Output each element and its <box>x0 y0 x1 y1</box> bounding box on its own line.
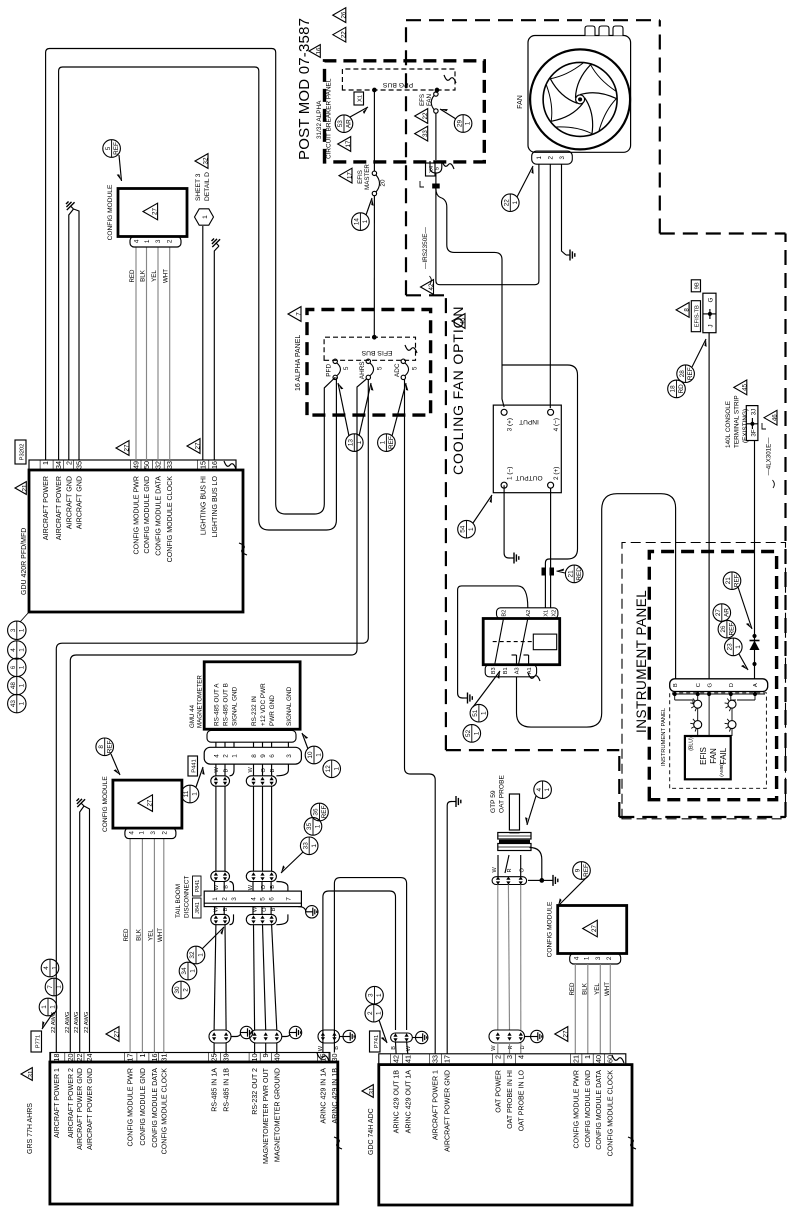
svg-text:3: 3 <box>595 956 602 960</box>
svg-text:4: 4 <box>43 966 50 970</box>
svg-text:G: G <box>707 682 713 687</box>
svg-text:1: 1 <box>316 753 323 757</box>
svg-text:1: 1 <box>544 787 551 791</box>
svg-text:AIRCRAFT POWER GND: AIRCRAFT POWER GND <box>444 1070 452 1152</box>
svg-text:2: 2 <box>222 897 229 901</box>
svg-text:INPUT: INPUT <box>519 418 539 425</box>
svg-text:J841: J841 <box>195 902 201 914</box>
svg-text:1: 1 <box>380 440 387 444</box>
svg-text:LIGHTING BUS HI: LIGHTING BUS HI <box>199 476 207 535</box>
svg-text:5: 5 <box>411 366 418 370</box>
svg-text:9: 9 <box>261 1054 270 1058</box>
svg-text:CONFIG MODULE CLOCK: CONFIG MODULE CLOCK <box>606 1070 614 1157</box>
svg-text:15: 15 <box>318 1054 327 1062</box>
svg-text:1: 1 <box>18 628 25 632</box>
svg-text:RS-232 OUT 2: RS-232 OUT 2 <box>251 1068 259 1115</box>
svg-text:31: 31 <box>369 1087 376 1094</box>
svg-text:OAT PROBE IN LO: OAT PROBE IN LO <box>517 1070 525 1132</box>
svg-text:22: 22 <box>340 31 347 38</box>
svg-text:RS-485 OUT B: RS-485 OUT B <box>222 683 229 726</box>
svg-text:15: 15 <box>198 461 207 469</box>
svg-text:36: 36 <box>313 808 320 816</box>
svg-text:1: 1 <box>333 767 340 771</box>
svg-text:11: 11 <box>183 790 190 797</box>
svg-text:B: B <box>223 907 229 911</box>
svg-text:OUTPUT: OUTPUT <box>515 474 542 481</box>
svg-text:B1: B1 <box>503 667 509 674</box>
svg-text:13: 13 <box>348 439 355 447</box>
svg-text:O: O <box>262 907 268 912</box>
svg-text:2 (+): 2 (+) <box>553 467 560 480</box>
svg-text:W: W <box>318 1045 324 1051</box>
svg-text:22: 22 <box>504 199 511 207</box>
svg-text:140L CONSOLE: 140L CONSOLE <box>725 401 732 448</box>
svg-text:33: 33 <box>302 842 309 850</box>
svg-text:27: 27 <box>715 609 722 617</box>
svg-text:51: 51 <box>472 709 479 717</box>
svg-text:2: 2 <box>161 831 168 835</box>
svg-text:2: 2 <box>367 1011 374 1015</box>
svg-text:43: 43 <box>10 700 17 708</box>
svg-text:REF: REF <box>687 367 694 380</box>
svg-text:27: 27 <box>591 925 598 932</box>
svg-text:1: 1 <box>138 1054 147 1058</box>
svg-text:O: O <box>520 868 526 873</box>
svg-text:30: 30 <box>174 986 181 994</box>
svg-text:SIGNAL GND: SIGNAL GND <box>286 686 293 726</box>
svg-text:P3202: P3202 <box>20 444 26 461</box>
svg-text:1: 1 <box>192 792 199 796</box>
svg-text:31: 31 <box>159 1054 168 1062</box>
svg-text:REF: REF <box>734 574 741 587</box>
svg-text:C: C <box>696 683 702 687</box>
svg-text:1: 1 <box>481 711 488 715</box>
svg-text:1: 1 <box>41 461 50 465</box>
svg-text:4: 4 <box>213 754 220 758</box>
svg-text:DETAIL D: DETAIL D <box>204 172 211 201</box>
svg-text:3: 3 <box>368 993 375 997</box>
svg-text:42: 42 <box>428 283 435 290</box>
svg-text:FAN: FAN <box>426 94 433 106</box>
svg-text:RS-485 OUT A: RS-485 OUT A <box>213 683 220 726</box>
svg-text:AIRCRAFT POWER GND: AIRCRAFT POWER GND <box>86 1068 94 1150</box>
svg-text:35: 35 <box>306 822 313 830</box>
svg-text:A2: A2 <box>526 610 532 617</box>
svg-text:WHT: WHT <box>157 928 164 942</box>
svg-text:1: 1 <box>18 648 25 652</box>
svg-text:34: 34 <box>181 967 188 975</box>
svg-text:4: 4 <box>516 1055 525 1059</box>
svg-text:AIRCRAFT POWER: AIRCRAFT POWER <box>55 476 63 540</box>
svg-text:7: 7 <box>285 897 292 901</box>
svg-text:CONFIG MODULE GND: CONFIG MODULE GND <box>584 1070 592 1148</box>
svg-text:7: 7 <box>296 312 303 316</box>
svg-text:33: 33 <box>165 461 174 469</box>
svg-text:1: 1 <box>198 953 205 957</box>
svg-text:60: 60 <box>605 1055 614 1063</box>
svg-text:1: 1 <box>512 200 519 204</box>
svg-text:8: 8 <box>251 754 258 758</box>
svg-text:(AMB): (AMB) <box>719 763 725 777</box>
svg-text:3: 3 <box>505 1055 514 1059</box>
svg-text:1: 1 <box>231 754 238 758</box>
svg-text:CONFIG MODULE PWR: CONFIG MODULE PWR <box>133 476 141 554</box>
svg-text:RS-485 IN 1A: RS-485 IN 1A <box>211 1068 219 1112</box>
svg-text:1: 1 <box>52 966 59 970</box>
svg-text:28: 28 <box>679 370 686 378</box>
svg-text:INSTRUMENT PANEL: INSTRUMENT PANEL <box>634 590 649 733</box>
svg-text:3: 3 <box>559 156 566 160</box>
svg-text:31: 31 <box>28 1070 35 1077</box>
svg-text:9: 9 <box>260 754 267 758</box>
svg-text:AIRCRAFT GND: AIRCRAFT GND <box>65 476 73 529</box>
svg-text:1: 1 <box>202 215 209 219</box>
svg-text:BLK: BLK <box>140 269 147 282</box>
svg-text:GDC 74H ADC: GDC 74H ADC <box>368 1108 375 1155</box>
svg-text:10: 10 <box>307 751 314 759</box>
svg-text:23: 23 <box>727 643 734 651</box>
svg-text:21: 21 <box>567 570 574 578</box>
svg-text:X1: X1 <box>544 610 550 617</box>
svg-text:52: 52 <box>465 729 472 737</box>
svg-text:45: 45 <box>460 317 467 324</box>
svg-text:1: 1 <box>18 683 25 687</box>
svg-text:1: 1 <box>50 1005 57 1009</box>
svg-text:1: 1 <box>362 219 369 223</box>
svg-text:17: 17 <box>126 1054 135 1062</box>
svg-text:1: 1 <box>311 844 318 848</box>
svg-text:41: 41 <box>403 1055 412 1063</box>
svg-text:B3: B3 <box>491 667 497 674</box>
svg-text:20: 20 <box>66 1054 75 1062</box>
svg-text:48: 48 <box>10 682 17 690</box>
svg-text:RED: RED <box>129 269 136 283</box>
svg-text:1: 1 <box>536 156 543 160</box>
svg-text:PPG BUS: PPG BUS <box>382 81 413 88</box>
svg-text:27: 27 <box>146 799 153 806</box>
svg-text:18: 18 <box>52 1054 61 1062</box>
svg-text:CONFIG MODULE GND: CONFIG MODULE GND <box>143 476 151 554</box>
svg-text:5: 5 <box>259 897 266 901</box>
svg-text:8: 8 <box>98 745 105 749</box>
svg-text:31/32 ALPHA: 31/32 ALPHA <box>316 100 323 139</box>
svg-text:29: 29 <box>456 120 463 128</box>
svg-text:AR: AR <box>346 119 353 128</box>
svg-text:CONFIG MODULE DATA: CONFIG MODULE DATA <box>155 476 163 556</box>
svg-text:YEL: YEL <box>151 270 158 282</box>
svg-text:EFIS-TB: EFIS-TB <box>695 305 701 327</box>
svg-text:2: 2 <box>493 1055 502 1059</box>
svg-text:ARINC 429 IN 1A: ARINC 429 IN 1A <box>319 1068 327 1124</box>
svg-text:3: 3 <box>231 897 238 901</box>
svg-text:8: 8 <box>684 308 691 312</box>
svg-text:22: 22 <box>422 112 429 119</box>
svg-text:REF: REF <box>729 623 736 636</box>
svg-text:4 (−): 4 (−) <box>553 418 560 431</box>
svg-text:16: 16 <box>316 47 323 54</box>
svg-text:16: 16 <box>150 1054 159 1062</box>
svg-text:AIRCRAFT POWER 1: AIRCRAFT POWER 1 <box>53 1068 61 1138</box>
svg-text:16: 16 <box>210 461 219 469</box>
svg-text:CONFIG MODULE PWR: CONFIG MODULE PWR <box>572 1070 580 1148</box>
svg-text:OAT PROBE IN HI: OAT PROBE IN HI <box>506 1070 514 1129</box>
svg-text:CONFIG MODULE: CONFIG MODULE <box>102 776 109 832</box>
svg-text:26: 26 <box>720 625 727 633</box>
svg-text:27: 27 <box>114 1030 121 1037</box>
svg-text:10: 10 <box>250 1054 259 1062</box>
svg-text:25: 25 <box>210 1054 219 1062</box>
svg-text:RED: RED <box>123 928 130 942</box>
svg-text:22: 22 <box>75 1054 84 1062</box>
svg-text:27: 27 <box>152 208 159 215</box>
svg-text:WHT: WHT <box>163 269 170 283</box>
svg-text:2: 2 <box>64 461 73 465</box>
svg-text:B: B <box>270 769 276 773</box>
svg-text:W: W <box>214 767 220 773</box>
svg-text:W: W <box>252 906 258 912</box>
svg-text:3: 3 <box>286 754 293 758</box>
svg-text:B: B <box>224 769 230 773</box>
svg-text:14: 14 <box>354 218 361 226</box>
svg-text:(BLU): (BLU) <box>689 737 695 751</box>
svg-text:D: D <box>729 683 735 687</box>
svg-text:FAN: FAN <box>709 748 718 764</box>
svg-text:7: 7 <box>47 985 54 989</box>
svg-text:17: 17 <box>443 1055 452 1063</box>
svg-text:COOLING FAN OPTION: COOLING FAN OPTION <box>450 306 466 475</box>
svg-text:40: 40 <box>594 1055 603 1063</box>
svg-text:B2: B2 <box>502 610 508 617</box>
svg-text:CONFIG MODULE DATA: CONFIG MODULE DATA <box>595 1070 603 1150</box>
svg-text:POST MOD 07-3587: POST MOD 07-3587 <box>296 18 313 160</box>
svg-text:P441: P441 <box>192 759 198 773</box>
svg-text:21: 21 <box>725 577 732 585</box>
svg-text:17: 17 <box>347 172 354 179</box>
svg-text:AIRCRAFT POWER GND: AIRCRAFT POWER GND <box>76 1068 84 1150</box>
svg-text:SIGNAL GND: SIGNAL GND <box>231 686 238 726</box>
svg-text:MAGNETOMETER GROUND: MAGNETOMETER GROUND <box>273 1068 281 1162</box>
svg-text:CONFIG MODULE PWR: CONFIG MODULE PWR <box>127 1068 135 1146</box>
svg-text:9B: 9B <box>695 282 701 289</box>
svg-text:49: 49 <box>132 461 141 469</box>
svg-text:42: 42 <box>392 1055 401 1063</box>
svg-text:YEL: YEL <box>147 929 154 941</box>
svg-text:4: 4 <box>573 956 580 960</box>
svg-text:J: J <box>708 324 715 327</box>
svg-text:GMU 44: GMU 44 <box>189 704 196 728</box>
svg-text:B: B <box>673 683 679 687</box>
svg-text:REF: REF <box>321 806 328 819</box>
svg-text:R: R <box>507 868 513 872</box>
svg-text:1: 1 <box>584 956 591 960</box>
svg-text:FAN: FAN <box>517 95 524 109</box>
svg-text:1: 1 <box>144 239 151 243</box>
svg-text:1: 1 <box>468 527 475 531</box>
svg-text:4: 4 <box>250 897 257 901</box>
svg-text:40: 40 <box>272 1054 281 1062</box>
svg-text:CONFIG MODULE CLOCK: CONFIG MODULE CLOCK <box>160 1068 168 1155</box>
svg-text:PFD: PFD <box>326 364 333 377</box>
svg-text:GDU 420R PFD/MFD: GDU 420R PFD/MFD <box>21 528 28 595</box>
svg-text:1: 1 <box>139 831 146 835</box>
svg-text:1: 1 <box>465 121 472 125</box>
svg-text:CONFIG MODULE DATA: CONFIG MODULE DATA <box>151 1068 159 1148</box>
svg-text:ARINC 429 OUT 1B: ARINC 429 OUT 1B <box>393 1070 401 1134</box>
svg-text:26: 26 <box>340 11 347 18</box>
svg-text:4: 4 <box>134 239 141 243</box>
svg-text:12: 12 <box>325 765 332 773</box>
svg-text:1: 1 <box>41 1005 48 1009</box>
svg-text:45: 45 <box>741 383 748 390</box>
svg-text:AIRCRAFT GND: AIRCRAFT GND <box>76 476 84 529</box>
svg-text:EFIS BUS: EFIS BUS <box>361 349 392 356</box>
svg-text:INSTRUMENT PANEL: INSTRUMENT PANEL <box>661 707 667 766</box>
svg-text:6: 6 <box>269 897 276 901</box>
svg-text:34: 34 <box>54 461 63 469</box>
svg-text:16 ALPHA PANEL: 16 ALPHA PANEL <box>295 335 302 391</box>
svg-text:(EXISTING): (EXISTING) <box>742 409 749 443</box>
svg-text:1: 1 <box>735 645 742 649</box>
svg-text:AIRCRAFT POWER: AIRCRAFT POWER <box>42 476 50 540</box>
svg-text:4: 4 <box>536 787 543 791</box>
svg-text:35: 35 <box>75 461 84 469</box>
svg-text:AR: AR <box>723 608 730 617</box>
svg-text:ARINC 429 OUT 1A: ARINC 429 OUT 1A <box>404 1070 412 1134</box>
svg-text:21: 21 <box>22 484 29 491</box>
svg-text:MASTER: MASTER <box>364 164 371 190</box>
svg-text:5: 5 <box>435 167 441 170</box>
svg-text:1 (−): 1 (−) <box>507 467 514 480</box>
svg-text:OAT PROBE: OAT PROBE <box>499 775 506 813</box>
svg-text:B: B <box>334 1046 340 1050</box>
svg-text:30: 30 <box>330 1054 339 1062</box>
svg-text:1: 1 <box>18 701 25 705</box>
svg-text:P741: P741 <box>374 1035 380 1049</box>
svg-text:O: O <box>261 768 267 773</box>
svg-text:AHRS: AHRS <box>359 361 366 379</box>
svg-text:P841: P841 <box>195 880 201 893</box>
svg-text:P771: P771 <box>36 1035 42 1049</box>
svg-text:X2: X2 <box>552 610 558 617</box>
svg-text:9: 9 <box>575 868 582 872</box>
svg-text:RD: RD <box>678 384 685 394</box>
svg-text:2: 2 <box>606 956 613 960</box>
svg-text:W: W <box>214 906 220 912</box>
svg-text:27: 27 <box>562 1030 569 1037</box>
svg-text:TAIL BOOM: TAIL BOOM <box>175 884 182 918</box>
svg-text:TERMINAL STRIP: TERMINAL STRIP <box>734 395 741 448</box>
svg-text:GTP 59: GTP 59 <box>490 790 497 813</box>
svg-text:32: 32 <box>203 157 210 164</box>
svg-text:4: 4 <box>10 648 17 652</box>
svg-text:5: 5 <box>105 146 112 150</box>
svg-text:EFS: EFS <box>419 94 426 106</box>
svg-text:A3: A3 <box>515 667 521 674</box>
svg-text:3 (+): 3 (+) <box>507 418 514 431</box>
svg-text:53: 53 <box>337 120 344 128</box>
svg-text:5: 5 <box>343 366 350 370</box>
svg-text:33: 33 <box>422 130 429 137</box>
svg-text:B: B <box>271 907 277 911</box>
svg-text:33: 33 <box>431 1055 440 1063</box>
svg-text:50: 50 <box>142 461 151 469</box>
svg-text:27: 27 <box>124 444 131 451</box>
svg-text:1: 1 <box>375 1011 382 1015</box>
svg-text:PWR GND: PWR GND <box>269 695 276 726</box>
svg-text:RS-485 IN 1B: RS-485 IN 1B <box>223 1068 231 1112</box>
svg-text:REF: REF <box>388 436 395 449</box>
svg-text:46: 46 <box>772 414 779 421</box>
svg-text:W: W <box>491 1045 497 1051</box>
svg-text:REF: REF <box>113 142 120 155</box>
svg-text:39: 39 <box>222 1054 231 1062</box>
svg-text:DISCONNECT: DISCONNECT <box>184 876 191 918</box>
svg-text:GRS 77H AHRS: GRS 77H AHRS <box>27 1103 34 1154</box>
svg-text:CIRCUIT BREAKER PANEL: CIRCUIT BREAKER PANEL <box>326 78 333 159</box>
svg-text:3: 3 <box>150 831 157 835</box>
svg-text:32: 32 <box>189 951 196 959</box>
svg-text:17: 17 <box>345 140 352 147</box>
svg-text:+12 VDC PWR: +12 VDC PWR <box>260 683 267 726</box>
svg-text:32: 32 <box>154 461 163 469</box>
svg-text:3: 3 <box>10 628 17 632</box>
svg-text:2: 2 <box>183 988 190 992</box>
svg-text:MAGNETOMETER: MAGNETOMETER <box>197 675 204 728</box>
svg-text:—IRS2350E—: —IRS2350E— <box>422 226 429 269</box>
svg-text:3: 3 <box>155 239 162 243</box>
svg-text:24: 24 <box>85 1054 94 1062</box>
svg-text:EFIS: EFIS <box>699 747 708 765</box>
svg-text:CONFIG MODULE CLOCK: CONFIG MODULE CLOCK <box>166 476 174 563</box>
svg-text:1: 1 <box>376 993 383 997</box>
svg-text:1: 1 <box>473 731 480 735</box>
svg-text:RED: RED <box>576 567 583 581</box>
svg-text:REF: REF <box>106 740 113 753</box>
svg-text:CONFIG MODULE: CONFIG MODULE <box>547 901 554 957</box>
svg-text:2: 2 <box>222 754 229 758</box>
svg-text:ADC: ADC <box>394 363 401 377</box>
svg-text:3J: 3J <box>751 409 758 416</box>
svg-text:54: 54 <box>460 525 467 533</box>
svg-text:RS-232 IN: RS-232 IN <box>251 696 258 726</box>
svg-text:EFIS: EFIS <box>357 170 364 184</box>
svg-text:4: 4 <box>129 831 136 835</box>
svg-text:G: G <box>708 297 715 302</box>
svg-text:1: 1 <box>18 665 25 669</box>
svg-text:X1: X1 <box>358 95 364 102</box>
svg-text:OAT POWER: OAT POWER <box>494 1070 502 1113</box>
svg-text:27: 27 <box>195 442 202 449</box>
svg-text:21: 21 <box>571 1055 580 1063</box>
svg-text:MAGNETOMETER PWR OUT: MAGNETOMETER PWR OUT <box>262 1067 270 1164</box>
svg-text:ARINC 429 IN 1B: ARINC 429 IN 1B <box>331 1068 339 1124</box>
svg-text:BLK: BLK <box>135 928 142 941</box>
svg-text:1: 1 <box>212 897 219 901</box>
svg-text:1: 1 <box>315 824 322 828</box>
svg-text:LIGHTING BUS LO: LIGHTING BUS LO <box>211 476 219 538</box>
svg-text:CONFIG MODULE: CONFIG MODULE <box>107 184 114 240</box>
svg-text:1: 1 <box>190 969 197 973</box>
svg-text:20: 20 <box>380 179 387 187</box>
svg-text:AIRCRAFT POWER 1: AIRCRAFT POWER 1 <box>432 1070 440 1140</box>
svg-text:—4LX301E—: —4LX301E— <box>765 437 772 476</box>
svg-text:A: A <box>753 683 759 687</box>
svg-text:AIRCRAFT POWER 2: AIRCRAFT POWER 2 <box>67 1068 75 1138</box>
svg-text:W: W <box>492 867 498 873</box>
svg-text:R: R <box>508 1046 514 1050</box>
svg-text:5: 5 <box>376 366 383 370</box>
svg-text:18: 18 <box>670 385 677 393</box>
